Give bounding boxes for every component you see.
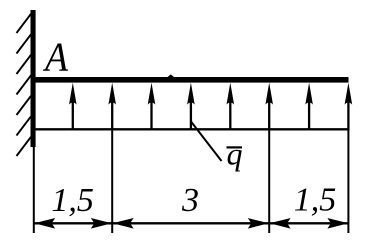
- load arrow 5: [227, 83, 235, 130]
- load arrow 7: [305, 83, 313, 130]
- distributed load base line: [36, 128, 349, 130]
- load arrow 6: [265, 83, 273, 130]
- wall (fixed support): [31, 10, 36, 147]
- dim arrow seg1 right (points right): [91, 218, 112, 229]
- dim arrow left end (points left): [34, 218, 55, 229]
- dim arrow right end (points right): [327, 218, 348, 229]
- svg-text:1,5: 1,5: [294, 182, 337, 219]
- load arrow 8: [345, 83, 353, 130]
- extension line 3: [268, 130, 270, 233]
- dim arrow seg3 left (points left): [270, 218, 291, 229]
- dim arrow seg2 left (points left): [113, 218, 134, 229]
- small tick on beam: [168, 74, 175, 77]
- load arrow 3: [148, 83, 156, 130]
- svg-text:q: q: [227, 136, 243, 172]
- load arrow 1: [69, 83, 77, 130]
- wall hatching: [17, 14, 32, 156]
- extension line 2: [111, 130, 113, 233]
- svg-text:A: A: [42, 33, 69, 79]
- load arrow 4: [187, 83, 195, 130]
- load arrow 2: [108, 83, 116, 130]
- extension line 4: [347, 130, 349, 233]
- svg-text:1,5: 1,5: [51, 182, 94, 219]
- svg-text:3: 3: [181, 182, 199, 219]
- dimension line: [34, 222, 349, 224]
- extension line 1: [33, 147, 35, 234]
- dim arrow seg2 right (points right): [248, 218, 269, 229]
- leader line to q: [191, 122, 222, 162]
- beam AB: [31, 77, 349, 83]
